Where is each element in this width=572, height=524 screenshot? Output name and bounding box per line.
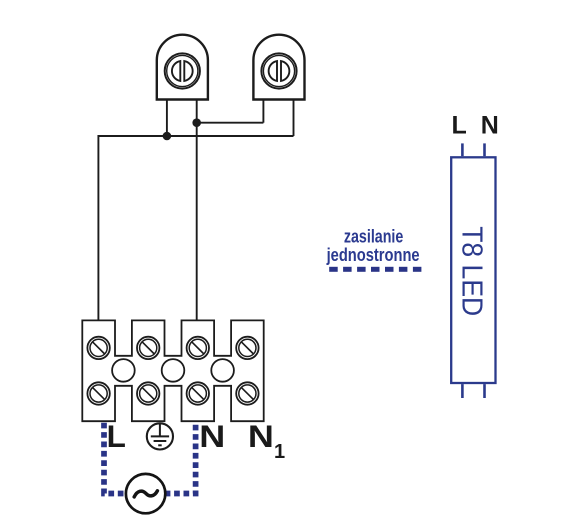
wire XL2 left pin down <box>262 100 264 123</box>
svg-text:L: L <box>452 111 467 139</box>
tube pin bottom-left <box>461 384 464 398</box>
wire horizontal XL2-left to junction <box>197 122 264 124</box>
wire XL1 right pin down to terminal N <box>196 100 198 321</box>
tube pin top-left <box>461 143 464 156</box>
legend dashed sample <box>329 267 421 272</box>
screw N bottom <box>187 382 209 404</box>
dashed mains wire L <box>104 422 126 494</box>
screw N1 top <box>236 337 258 359</box>
svg-text:N: N <box>481 111 499 139</box>
AC source G1 <box>126 474 165 513</box>
lamp holder XL2 (right socket) <box>253 35 304 100</box>
tube pin bottom-right <box>483 384 486 398</box>
wire XL1 left pin down <box>166 100 168 137</box>
svg-text:T8 LED: T8 LED <box>455 226 487 316</box>
svg-text:jednostronne: jednostronne <box>326 244 420 265</box>
terminal block X1 outline <box>82 320 263 421</box>
dashed mains wire N <box>165 422 195 494</box>
terminal block middle hole 3 <box>211 359 234 382</box>
screw L bottom <box>87 382 109 404</box>
terminal block middle hole 1 <box>112 359 135 382</box>
junction dot B <box>192 118 201 127</box>
svg-text:N: N <box>199 418 225 454</box>
LED tube EL1 body <box>451 157 495 383</box>
lamp holder XL1 (left socket) <box>157 35 208 100</box>
junction dot A <box>163 132 172 141</box>
svg-text:L: L <box>107 418 126 454</box>
wire horizontal to terminal L <box>98 136 293 321</box>
screw N top <box>187 337 209 359</box>
terminal block middle hole 2 <box>162 359 185 382</box>
screw PE top <box>137 337 159 359</box>
wire XL2 right pin down <box>293 100 295 137</box>
screw PE bottom <box>137 382 159 404</box>
tube pin top-right <box>483 143 486 156</box>
screw N1 bottom <box>236 382 258 404</box>
svg-text:N: N <box>248 418 274 454</box>
svg-text:1: 1 <box>274 441 285 463</box>
earth symbol PE <box>147 423 173 449</box>
screw L top <box>87 337 109 359</box>
